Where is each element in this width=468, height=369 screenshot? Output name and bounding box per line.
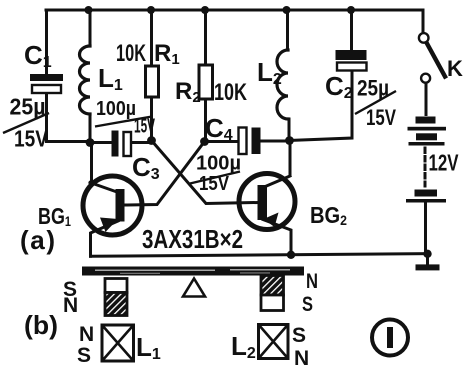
svg-text:BG2: BG2	[310, 202, 347, 228]
svg-text:15V: 15V	[199, 173, 230, 195]
svg-text:25µ: 25µ	[10, 94, 46, 120]
svg-text:C3: C3	[132, 152, 160, 183]
svg-text:(a): (a)	[20, 225, 55, 255]
svg-text:N: N	[63, 294, 78, 317]
svg-text:25µ: 25µ	[357, 76, 389, 101]
svg-text:L1: L1	[136, 332, 161, 363]
svg-text:(b): (b)	[24, 310, 58, 340]
svg-text:C2: C2	[325, 71, 353, 102]
svg-text:10K: 10K	[116, 40, 146, 67]
svg-text:15V: 15V	[134, 116, 155, 138]
svg-text:100µ: 100µ	[196, 153, 241, 175]
svg-text:S: S	[292, 324, 306, 347]
svg-text:R1: R1	[154, 40, 180, 68]
svg-text:3AX31B×2: 3AX31B×2	[142, 224, 243, 254]
svg-text:S: S	[302, 293, 313, 316]
svg-text:N: N	[294, 347, 309, 369]
svg-text:100µ: 100µ	[96, 98, 136, 120]
svg-text:N: N	[306, 270, 318, 293]
svg-text:L1: L1	[98, 63, 123, 94]
svg-text:15V: 15V	[366, 105, 396, 130]
svg-text:C4: C4	[205, 113, 233, 144]
svg-text:N: N	[79, 323, 94, 346]
svg-text:12V: 12V	[429, 150, 459, 176]
svg-text:K: K	[447, 56, 463, 81]
svg-text:L2: L2	[231, 331, 256, 362]
svg-text:R2: R2	[175, 78, 201, 106]
svg-text:15V: 15V	[14, 126, 49, 152]
svg-text:10K: 10K	[214, 79, 247, 106]
svg-text:S: S	[77, 344, 91, 367]
